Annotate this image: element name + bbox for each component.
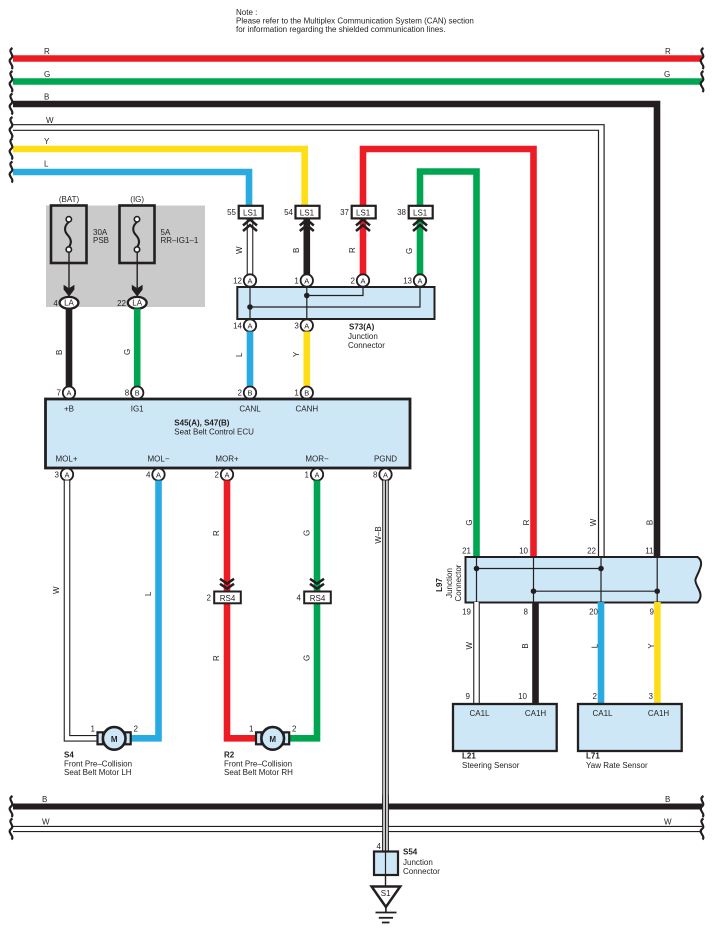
pin 12 A xyxy=(233,274,256,286)
svg-text:B: B xyxy=(135,389,140,398)
wire W-B crossing bottom buses xyxy=(382,795,389,852)
svg-text:B: B xyxy=(646,520,655,525)
connector 4 RS4 xyxy=(297,579,331,604)
svg-text:M: M xyxy=(269,735,276,744)
fuse block grey box xyxy=(46,206,205,308)
svg-text:Junction: Junction xyxy=(348,332,378,341)
svg-text:S1: S1 xyxy=(381,889,391,898)
svg-text:for information regarding the: for information regarding the shielded c… xyxy=(236,25,445,34)
svg-text:12: 12 xyxy=(233,277,242,286)
wire B fuse to +B xyxy=(55,309,69,387)
svg-text:4: 4 xyxy=(377,842,382,851)
svg-text:B: B xyxy=(521,643,530,648)
svg-text:1: 1 xyxy=(249,725,254,734)
pin 8 A PGND xyxy=(373,468,392,480)
squiggle left bottom B xyxy=(10,796,13,817)
junction connector S54 xyxy=(374,842,440,876)
svg-text:A: A xyxy=(247,321,252,330)
connector LS1 pin 54 xyxy=(284,206,319,231)
svg-text:W: W xyxy=(235,246,244,254)
pin 3 A MOL+ xyxy=(55,468,74,480)
pin 2 B CANL xyxy=(238,387,257,399)
pin 1 A xyxy=(294,274,313,286)
svg-text:(IG): (IG) xyxy=(130,195,144,204)
svg-text:8: 8 xyxy=(373,471,378,480)
svg-text:20: 20 xyxy=(589,608,598,617)
arrow from fuse IG xyxy=(132,252,143,296)
svg-text:S54: S54 xyxy=(403,848,418,857)
pin 7 A xyxy=(57,387,76,399)
svg-text:IG1: IG1 xyxy=(131,405,144,414)
svg-text:A: A xyxy=(247,276,252,285)
squiggle left bottom W xyxy=(10,819,13,840)
svg-text:Y: Y xyxy=(647,643,656,649)
svg-text:Y: Y xyxy=(292,351,301,357)
svg-text:2: 2 xyxy=(134,725,139,734)
connector 4 LA xyxy=(53,297,78,309)
svg-text:R: R xyxy=(348,247,357,253)
svg-text:10: 10 xyxy=(518,692,527,701)
svg-text:B: B xyxy=(42,795,47,804)
svg-text:LS1: LS1 xyxy=(356,209,371,218)
svg-text:L: L xyxy=(591,643,600,648)
svg-text:Connector: Connector xyxy=(454,564,463,601)
svg-text:LA: LA xyxy=(64,299,74,308)
svg-text:4: 4 xyxy=(146,471,151,480)
svg-text:1: 1 xyxy=(305,471,310,480)
arrow from fuse BAT xyxy=(64,252,75,296)
svg-text:Y: Y xyxy=(44,137,50,146)
svg-text:Seat Belt Motor LH: Seat Belt Motor LH xyxy=(64,768,132,777)
svg-text:MOR−: MOR− xyxy=(305,455,329,464)
svg-text:9: 9 xyxy=(650,608,655,617)
svg-text:38: 38 xyxy=(397,208,406,217)
svg-text:W: W xyxy=(664,818,672,827)
junction connector S73(A) xyxy=(237,281,434,350)
pin 1 A MOR- xyxy=(305,468,324,480)
motor S4 xyxy=(64,725,139,778)
pin 3 A xyxy=(294,319,313,331)
ground symbol xyxy=(376,907,397,923)
wire W-B PGND to S54 xyxy=(374,481,386,853)
svg-text:LS1: LS1 xyxy=(243,209,258,218)
svg-text:Seat Belt Motor RH: Seat Belt Motor RH xyxy=(224,768,293,777)
svg-text:22: 22 xyxy=(117,299,126,308)
svg-text:1: 1 xyxy=(91,725,96,734)
svg-text:M: M xyxy=(111,735,118,744)
svg-text:B: B xyxy=(304,389,309,398)
squiggle left L xyxy=(10,162,13,183)
wire W from LS1 55 to pin 12 xyxy=(235,218,250,275)
note text xyxy=(236,8,474,34)
connector 2 RS4 xyxy=(207,579,241,604)
svg-text:2: 2 xyxy=(238,389,243,398)
svg-text:R: R xyxy=(212,655,221,661)
svg-text:G: G xyxy=(44,70,50,79)
wire green to LS1 38 xyxy=(420,172,477,559)
wire G MOR- upper xyxy=(303,481,318,592)
wire R MOR+ upper xyxy=(212,481,227,592)
svg-text:MOL+: MOL+ xyxy=(55,455,77,464)
svg-text:R2: R2 xyxy=(224,751,235,760)
svg-text:RS4: RS4 xyxy=(220,594,236,603)
svg-text:Connector: Connector xyxy=(348,341,385,350)
svg-text:B: B xyxy=(247,389,252,398)
svg-text:B: B xyxy=(44,93,49,102)
squiggle left B xyxy=(10,94,13,115)
svg-text:CA1H: CA1H xyxy=(648,709,670,718)
squiggle right bottom B xyxy=(701,796,704,817)
svg-text:G: G xyxy=(303,655,312,661)
wire bus B xyxy=(13,93,657,559)
svg-text:W: W xyxy=(465,641,474,649)
svg-text:RR–IG1–1: RR–IG1–1 xyxy=(161,236,199,245)
svg-text:Yaw Rate Sensor: Yaw Rate Sensor xyxy=(586,761,648,770)
svg-text:G: G xyxy=(465,519,474,525)
wire bus L xyxy=(13,160,249,208)
svg-text:10: 10 xyxy=(519,547,528,556)
svg-text:G: G xyxy=(664,70,670,79)
connector LS1 pin 37 xyxy=(340,206,376,231)
svg-text:21: 21 xyxy=(462,547,471,556)
svg-text:LS1: LS1 xyxy=(300,209,315,218)
wire R RS4 to motor R2 xyxy=(212,603,256,738)
svg-text:A: A xyxy=(360,276,365,285)
squiggle right R xyxy=(701,48,704,69)
svg-text:LA: LA xyxy=(132,299,142,308)
svg-text:S4: S4 xyxy=(64,751,74,760)
svg-text:RS4: RS4 xyxy=(310,594,326,603)
svg-text:A: A xyxy=(66,389,71,398)
pin 2 A MOR+ xyxy=(215,468,234,480)
wire R from LS1 37 to pin 2 xyxy=(348,218,363,275)
svg-text:8: 8 xyxy=(125,389,130,398)
svg-text:A: A xyxy=(417,276,422,285)
wire L S73 to CANL xyxy=(235,332,250,388)
bottom bus B xyxy=(13,795,702,807)
svg-text:A: A xyxy=(304,321,309,330)
pin 14 A xyxy=(233,319,256,331)
svg-text:19: 19 xyxy=(462,608,471,617)
svg-text:11: 11 xyxy=(645,547,654,556)
fuse 5A RR-IG1-1 (IG) xyxy=(120,195,199,263)
svg-text:R: R xyxy=(44,47,50,56)
svg-text:A: A xyxy=(224,470,229,479)
svg-text:LS1: LS1 xyxy=(413,209,428,218)
svg-text:S45(A), S47(B): S45(A), S47(B) xyxy=(174,419,229,428)
pin 2 A xyxy=(351,274,370,286)
wire B L97 to L21 CA1H xyxy=(518,602,535,704)
svg-text:22: 22 xyxy=(587,547,596,556)
yaw rate sensor L71 xyxy=(578,704,682,770)
svg-text:R: R xyxy=(522,519,531,525)
svg-text:Connector: Connector xyxy=(403,867,440,876)
svg-text:S73(A): S73(A) xyxy=(349,323,375,332)
wire bus W xyxy=(13,116,601,558)
wire L L97 to L71 CA1L xyxy=(589,602,601,704)
svg-text:8: 8 xyxy=(524,608,529,617)
svg-text:G: G xyxy=(123,349,132,355)
svg-text:2: 2 xyxy=(351,277,356,286)
svg-text:G: G xyxy=(405,248,414,254)
ECU S45(A) S47(B) Seat Belt Control ECU xyxy=(46,399,411,468)
squiggle left G xyxy=(10,71,13,92)
svg-text:R: R xyxy=(212,530,221,536)
wire bus Y xyxy=(13,137,305,207)
svg-text:1: 1 xyxy=(294,277,299,286)
svg-text:PGND: PGND xyxy=(374,455,397,464)
svg-text:W: W xyxy=(589,518,598,526)
wire bus G xyxy=(13,70,702,82)
squiggle left Y xyxy=(10,139,13,160)
svg-text:L97: L97 xyxy=(435,578,444,592)
svg-text:B: B xyxy=(665,795,670,804)
wire labels above L97 xyxy=(462,518,655,555)
squiggle left W xyxy=(10,117,13,138)
svg-text:55: 55 xyxy=(227,208,236,217)
wire red to LS1 37 xyxy=(363,149,534,558)
svg-text:9: 9 xyxy=(466,692,471,701)
fuse 30A PSB (BAT) xyxy=(51,195,109,263)
wire Y L97 to L71 CA1H xyxy=(647,602,658,704)
svg-text:2: 2 xyxy=(207,594,212,603)
wire W L97 to L21 CA1L xyxy=(462,602,476,704)
squiggle right G xyxy=(701,71,704,92)
svg-text:A: A xyxy=(314,470,319,479)
steering sensor L21 xyxy=(453,704,557,770)
svg-text:A: A xyxy=(304,276,309,285)
svg-text:CANL: CANL xyxy=(239,405,261,414)
svg-text:A: A xyxy=(383,470,388,479)
connector LS1 pin 38 xyxy=(397,206,433,231)
svg-text:A: A xyxy=(156,470,161,479)
svg-text:54: 54 xyxy=(284,208,293,217)
connector 22 LA xyxy=(117,297,147,309)
svg-text:L: L xyxy=(235,352,244,357)
svg-text:MOL−: MOL− xyxy=(147,455,169,464)
svg-text:Junction: Junction xyxy=(445,568,454,598)
wire G RS4 to motor R2 xyxy=(290,603,317,738)
svg-text:1: 1 xyxy=(294,389,299,398)
svg-text:37: 37 xyxy=(340,208,349,217)
connector LS1 pin 55 xyxy=(227,206,263,231)
pin 4 A MOL- xyxy=(146,468,165,480)
svg-text:B: B xyxy=(292,248,301,253)
bottom bus W xyxy=(13,818,702,830)
svg-text:Junction: Junction xyxy=(403,858,433,867)
svg-text:4: 4 xyxy=(297,594,302,603)
svg-text:7: 7 xyxy=(57,389,62,398)
svg-text:(BAT): (BAT) xyxy=(59,195,80,204)
junction connector L97 xyxy=(435,557,701,603)
svg-text:G: G xyxy=(303,530,312,536)
svg-text:4: 4 xyxy=(53,299,58,308)
svg-text:W: W xyxy=(52,586,61,594)
svg-text:2: 2 xyxy=(215,471,220,480)
svg-text:3: 3 xyxy=(294,322,299,331)
squiggle left R xyxy=(10,48,13,69)
svg-text:A: A xyxy=(64,470,69,479)
svg-text:+B: +B xyxy=(64,405,74,414)
svg-text:CA1H: CA1H xyxy=(525,709,547,718)
svg-text:3: 3 xyxy=(55,471,60,480)
svg-text:CA1L: CA1L xyxy=(592,709,613,718)
wire G fuse to IG1 xyxy=(123,309,137,387)
ground triangle S1 xyxy=(372,875,401,907)
svg-text:2: 2 xyxy=(593,692,598,701)
motor R2 xyxy=(224,725,297,778)
pin 1 B CANH xyxy=(294,387,313,399)
svg-text:W: W xyxy=(42,818,50,827)
svg-text:MOR+: MOR+ xyxy=(215,455,239,464)
svg-text:2: 2 xyxy=(292,725,297,734)
svg-text:CA1L: CA1L xyxy=(469,709,490,718)
svg-text:13: 13 xyxy=(403,277,412,286)
svg-text:L: L xyxy=(144,591,153,596)
wire W MOL+ to motor S4 xyxy=(52,481,97,739)
wire G from LS1 38 to pin 13 xyxy=(405,218,420,275)
wire B from LS1 54 to pin 1 xyxy=(292,218,307,275)
svg-text:Steering Sensor: Steering Sensor xyxy=(462,761,520,770)
svg-text:14: 14 xyxy=(233,322,242,331)
wire bus R xyxy=(13,47,702,59)
svg-text:R: R xyxy=(665,47,671,56)
wire Y S73 to CANH xyxy=(292,332,307,388)
svg-text:W–B: W–B xyxy=(374,526,383,543)
svg-text:L21: L21 xyxy=(462,752,476,761)
wire L MOL- to motor S4 xyxy=(131,481,159,739)
svg-text:W: W xyxy=(46,116,54,125)
squiggle right bottom W xyxy=(701,819,704,840)
svg-text:PSB: PSB xyxy=(93,236,109,245)
pin 8 B xyxy=(125,387,144,399)
svg-text:L71: L71 xyxy=(586,752,600,761)
pin 13 A xyxy=(403,274,426,286)
svg-text:B: B xyxy=(55,350,64,355)
svg-text:CANH: CANH xyxy=(295,405,318,414)
svg-text:Seat Belt Control ECU: Seat Belt Control ECU xyxy=(174,428,254,437)
svg-text:L: L xyxy=(44,160,49,169)
svg-text:3: 3 xyxy=(649,692,654,701)
